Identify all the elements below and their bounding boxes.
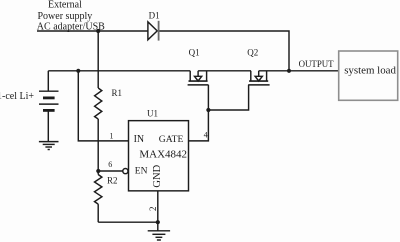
resistor R2 <box>95 171 102 222</box>
junction dot: gate node <box>206 108 210 112</box>
junction dot: EN node (R1/R2) <box>96 169 100 173</box>
junction dot: ground node <box>156 220 160 224</box>
wire: U1 GATE pin to Q1 gate <box>189 85 209 141</box>
wire: R2 bottom to ground node <box>98 221 158 223</box>
svg-text:GATE: GATE <box>159 134 184 145</box>
svg-text:2: 2 <box>148 207 158 212</box>
svg-text:system load: system load <box>344 64 396 76</box>
transistor Q2 <box>248 71 269 85</box>
wire: supply input to D1 anode <box>37 30 148 32</box>
ground (main) <box>148 222 170 240</box>
net label: External Power supply / AC adapter/USB <box>37 0 105 33</box>
svg-text:D1: D1 <box>149 10 160 20</box>
wire: U1 GND pin to ground node <box>157 191 159 222</box>
svg-text:EN: EN <box>135 166 148 176</box>
junction dot: battery rail to IN branch <box>76 69 80 73</box>
svg-text:R2: R2 <box>107 176 118 186</box>
diode D1 <box>148 21 159 41</box>
svg-text:R1: R1 <box>112 88 123 98</box>
svg-text:IN: IN <box>134 134 145 145</box>
battery BT1 <box>39 71 59 142</box>
svg-text:U1: U1 <box>147 108 158 118</box>
svg-text:Q2: Q2 <box>247 48 258 58</box>
transistor Q1 <box>188 71 209 85</box>
svg-text:OUTPUT: OUTPUT <box>299 59 335 69</box>
ground (battery) <box>39 142 59 150</box>
junction dot: output node <box>287 69 291 73</box>
wire: gate node to Q2 gate <box>208 85 248 110</box>
svg-text:4: 4 <box>204 131 208 140</box>
svg-text:MAX4842: MAX4842 <box>139 149 187 161</box>
junction dot: supply to R1 branch <box>96 29 100 33</box>
resistor R1 <box>95 88 102 119</box>
EN inversion bubble <box>123 169 128 174</box>
wire: R1 bottom to EN node <box>97 119 99 171</box>
svg-text:Power supply: Power supply <box>38 11 93 22</box>
svg-text:1-cel Li+: 1-cel Li+ <box>0 91 34 102</box>
svg-text:1: 1 <box>110 131 114 140</box>
wire: rail Q1 body to Q2 source <box>198 70 251 72</box>
svg-text:GND: GND <box>152 164 163 187</box>
wire: D1 cathode to output node (top right corner) <box>160 31 290 71</box>
wire: battery positive rail to Q1 source <box>48 70 190 72</box>
svg-text:External: External <box>48 0 82 11</box>
wire: rail Q2 body to system load <box>259 70 339 72</box>
system load box <box>339 51 398 100</box>
wire: supply branch down to R1 top <box>97 31 99 88</box>
wire: EN node to EN bubble <box>98 170 123 172</box>
IC U1 box <box>129 121 189 191</box>
svg-text:6: 6 <box>108 160 112 169</box>
svg-text:Q1: Q1 <box>189 48 200 58</box>
wire: rail junction down and right to U1 IN pin <box>78 71 128 141</box>
